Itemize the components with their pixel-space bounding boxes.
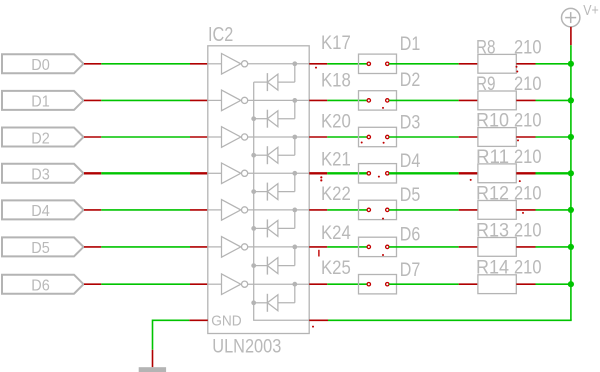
junction channel 7 output (292, 282, 297, 287)
resistor R13 (478, 238, 516, 257)
connector flag D0 (2, 54, 84, 74)
IC2 input pin 4 (190, 172, 208, 174)
wire R13 to V+ bus (536, 246, 571, 248)
svg-text:R8: R8 (476, 37, 496, 58)
jumper K22 (359, 200, 397, 219)
diode internal ch5 (254, 210, 295, 238)
wire to K20 (327, 136, 367, 138)
junction V+ bus row 3 (568, 134, 574, 140)
GND pin stub (152, 350, 154, 367)
svg-text:R11: R11 (476, 147, 509, 168)
junction V+ bus row 2 (568, 97, 574, 103)
wire D1 stub (84, 99, 101, 101)
connector flag D4 (2, 200, 84, 220)
inverter gate channel 2 (208, 90, 309, 111)
svg-text:D3: D3 (31, 167, 50, 184)
wire R12 to V+ bus (536, 209, 571, 211)
resistor R11 right pin (516, 172, 535, 174)
jumper K20 (359, 127, 397, 146)
IC2 output pin 6 (309, 246, 327, 248)
svg-text:D0: D0 (31, 57, 50, 74)
supply symbol V+ (562, 8, 580, 26)
inverter gate channel 1 (208, 54, 309, 75)
wire R11 to V+ bus (536, 172, 571, 174)
junction channel 4 output (292, 171, 297, 176)
svg-text:K20: K20 (321, 111, 351, 132)
svg-text:K22: K22 (321, 184, 351, 205)
junction V+ bus row 4 (568, 170, 574, 176)
svg-text:D6: D6 (31, 278, 50, 295)
diode internal ch3 (254, 137, 295, 164)
wire D5 stub (84, 246, 101, 248)
connector flag D2 (2, 128, 84, 148)
wire GND net (153, 320, 190, 350)
wire diode common rail (254, 82, 310, 320)
resistor R9 left pin (459, 99, 478, 101)
IC2 output pin 2 (309, 99, 327, 101)
label R9 value 210 (476, 74, 542, 95)
IC2 input pin 5 (190, 209, 208, 211)
wire K21 to R11 (389, 172, 459, 174)
svg-text:D1: D1 (31, 94, 50, 111)
wire to K21 (327, 172, 367, 174)
svg-text:R10: R10 (476, 111, 509, 132)
resistor R10 left pin (459, 136, 478, 138)
wire D3 stub (84, 172, 101, 174)
diode internal ch4 (254, 173, 295, 200)
svg-text:R12: R12 (476, 183, 509, 204)
wire to K25 (327, 283, 367, 285)
wire to K24 (327, 246, 367, 248)
svg-text:K25: K25 (321, 258, 351, 279)
wire D4 stub (84, 209, 101, 211)
svg-text:D5: D5 (400, 185, 421, 206)
wire K25 to R14 (389, 283, 459, 285)
inverter gate channel 5 (208, 200, 309, 221)
wire to K18 (327, 99, 367, 101)
label R10 value 210 (476, 111, 542, 132)
svg-text:D6: D6 (400, 224, 421, 245)
junction V+ bus row 6 (568, 244, 574, 250)
resistor R11 (478, 164, 516, 183)
junction channel 1 output (292, 61, 297, 66)
label R11 value 210 (476, 147, 542, 168)
connector flag D3 (2, 164, 84, 184)
resistor R14 (478, 275, 516, 294)
junction channel 3 output (292, 135, 297, 140)
svg-text:K18: K18 (321, 70, 351, 91)
junction channel 5 output (292, 208, 297, 213)
svg-text:210: 210 (514, 220, 542, 241)
svg-text:D4: D4 (31, 203, 50, 220)
IC2 output pin 5 (309, 209, 327, 211)
svg-text:IC2: IC2 (208, 23, 233, 46)
svg-text:K21: K21 (321, 150, 351, 171)
wire net D1 (101, 99, 190, 101)
jumper K18 (359, 91, 397, 110)
resistor R12 left pin (459, 209, 478, 211)
IC2 input pin 2 (190, 99, 208, 101)
wire K24 to R13 (389, 246, 459, 248)
junction common rail 6 (251, 263, 256, 268)
connector flag D1 (2, 91, 84, 111)
connector flag D6 (2, 275, 84, 295)
resistor R12 (478, 201, 516, 220)
jumper K25 (359, 275, 397, 294)
junction V+ bus row 7 (568, 281, 574, 287)
wire V+ bus vertical (570, 45, 572, 320)
svg-text:D2: D2 (400, 70, 421, 91)
IC2 output pin 3 (309, 136, 327, 138)
inverter gate channel 7 (208, 274, 309, 295)
wire to K17 (327, 63, 367, 65)
diode internal ch2 (254, 100, 295, 127)
junction V+ bus row 1 (568, 61, 574, 67)
svg-text:D1: D1 (400, 34, 421, 55)
ground symbol (139, 367, 166, 372)
junction common rail 7 (251, 300, 256, 305)
svg-text:K17: K17 (321, 33, 351, 54)
svg-text:D2: D2 (31, 130, 50, 147)
resistor R8 right pin (516, 63, 535, 65)
wire K17 to R8 (389, 63, 459, 65)
resistor R9 (478, 91, 516, 110)
IC2 COM pin (309, 319, 328, 321)
resistor R14 right pin (516, 283, 535, 285)
wire COM to bus (328, 319, 572, 321)
wire D6 stub (84, 283, 101, 285)
resistor R14 left pin (459, 283, 478, 285)
resistor R13 right pin (516, 246, 535, 248)
jumper K24 (359, 237, 397, 256)
svg-text:210: 210 (514, 183, 542, 204)
label R14 value 210 (476, 258, 542, 279)
svg-text:210: 210 (514, 74, 542, 95)
wire net D4 (101, 209, 190, 211)
wire K18 to R9 (389, 99, 459, 101)
diode internal ch6 (254, 247, 295, 275)
wire D0 stub (84, 63, 101, 65)
wire R8 to V+ bus (536, 63, 571, 65)
wire net D5 (101, 246, 190, 248)
svg-text:210: 210 (514, 258, 542, 279)
svg-text:210: 210 (514, 37, 542, 58)
junction common rail 4 (251, 189, 256, 194)
IC2 input pin 6 (190, 246, 208, 248)
resistor R12 right pin (516, 209, 535, 211)
origin marks (312, 66, 524, 328)
V+ pin stub (570, 27, 572, 45)
wire R9 to V+ bus (536, 99, 571, 101)
IC2 input pin 7 (190, 283, 208, 285)
wire K22 to R12 (389, 209, 459, 211)
IC2 input pin 1 (190, 63, 208, 65)
svg-text:210: 210 (514, 111, 542, 132)
svg-text:V+: V+ (583, 2, 599, 19)
resistor R9 right pin (516, 99, 535, 101)
resistor R11 left pin (459, 172, 478, 174)
svg-text:D5: D5 (31, 240, 50, 257)
label R8 value 210 (476, 37, 542, 58)
resistor R10 (478, 128, 516, 147)
resistor R8 (478, 54, 516, 73)
svg-text:210: 210 (514, 147, 542, 168)
IC2 output pin 4 (309, 172, 327, 174)
wire D2 stub (84, 136, 101, 138)
inverter gate channel 4 (208, 163, 309, 184)
IC2 output pin 1 (309, 63, 327, 65)
jumper K17 (359, 54, 397, 73)
wire R10 to V+ bus (536, 136, 571, 138)
wire K20 to R10 (389, 136, 459, 138)
junction channel 2 output (292, 98, 297, 103)
junction V+ bus row 5 (568, 207, 574, 213)
svg-text:R9: R9 (476, 74, 496, 95)
diode internal ch1 (254, 64, 295, 91)
connector flag D5 (2, 237, 84, 257)
inverter gate channel 3 (208, 127, 309, 148)
wire net D3 (101, 172, 190, 174)
svg-text:D3: D3 (400, 113, 421, 134)
jumper K21 (359, 164, 397, 183)
label R13 value 210 (476, 220, 542, 241)
junction common rail 3 (251, 153, 256, 158)
inverter gate channel 6 (208, 237, 309, 258)
svg-text:K24: K24 (321, 223, 351, 244)
IC2 output pin 7 (309, 283, 327, 285)
svg-text:D7: D7 (400, 260, 421, 281)
svg-text:GND: GND (211, 312, 242, 329)
IC2 input pin 3 (190, 136, 208, 138)
svg-text:R14: R14 (476, 258, 509, 279)
wire net D0 (101, 63, 190, 65)
diode internal ch7 (254, 284, 295, 312)
IC2 GND pin (189, 319, 208, 321)
junction common rail 5 (251, 226, 256, 231)
wire net D6 (101, 283, 190, 285)
svg-text:R13: R13 (476, 220, 509, 241)
svg-text:ULN2003: ULN2003 (212, 335, 281, 357)
wire net D2 (101, 136, 190, 138)
junction common rail 2 (251, 116, 256, 121)
resistor R10 right pin (516, 136, 535, 138)
junction channel 6 output (292, 245, 297, 250)
resistor R13 left pin (459, 246, 478, 248)
wire to K22 (327, 209, 367, 211)
svg-text:D4: D4 (400, 151, 421, 172)
IC2 ULN2003 body (208, 23, 309, 358)
label R12 value 210 (476, 183, 542, 204)
wire R14 to V+ bus (536, 283, 571, 285)
resistor R8 left pin (459, 63, 478, 65)
